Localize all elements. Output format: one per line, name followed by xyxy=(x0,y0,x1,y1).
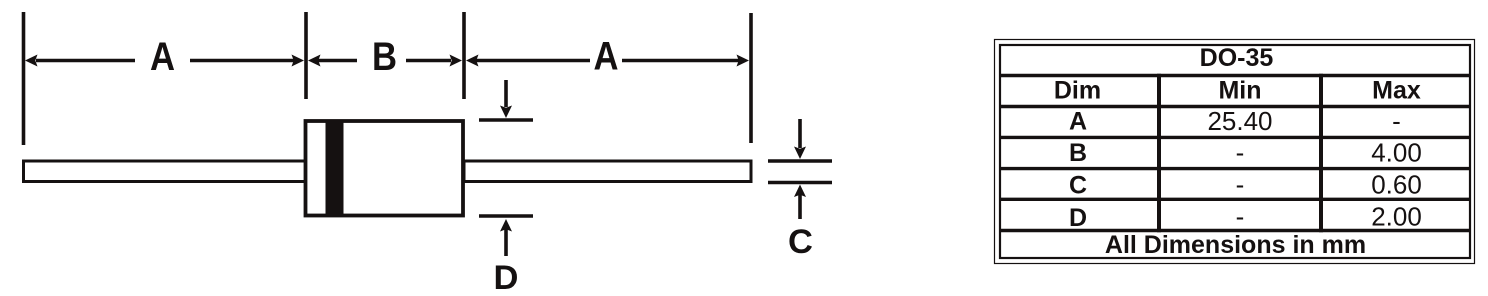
svg-text:-: - xyxy=(1392,106,1401,136)
svg-text:A: A xyxy=(150,35,175,79)
svg-text:25.40: 25.40 xyxy=(1207,106,1272,136)
svg-text:C: C xyxy=(1069,172,1087,200)
svg-text:-: - xyxy=(1236,170,1245,200)
svg-text:A: A xyxy=(1069,108,1087,136)
svg-text:D: D xyxy=(494,259,519,296)
svg-text:Max: Max xyxy=(1372,77,1421,105)
svg-text:0.60: 0.60 xyxy=(1371,170,1422,200)
svg-text:B: B xyxy=(372,35,397,79)
svg-text:Min: Min xyxy=(1218,77,1261,105)
svg-text:-: - xyxy=(1236,138,1245,168)
svg-text:DO-35: DO-35 xyxy=(1200,44,1274,72)
svg-text:4.00: 4.00 xyxy=(1371,138,1422,168)
svg-text:D: D xyxy=(1069,204,1087,232)
svg-text:B: B xyxy=(1069,139,1087,167)
svg-text:2.00: 2.00 xyxy=(1371,202,1422,232)
svg-text:C: C xyxy=(788,223,813,261)
svg-text:A: A xyxy=(594,35,619,79)
svg-text:-: - xyxy=(1236,202,1245,232)
svg-text:Dim: Dim xyxy=(1054,77,1101,105)
svg-text:All Dimensions in mm: All Dimensions in mm xyxy=(1105,231,1366,259)
